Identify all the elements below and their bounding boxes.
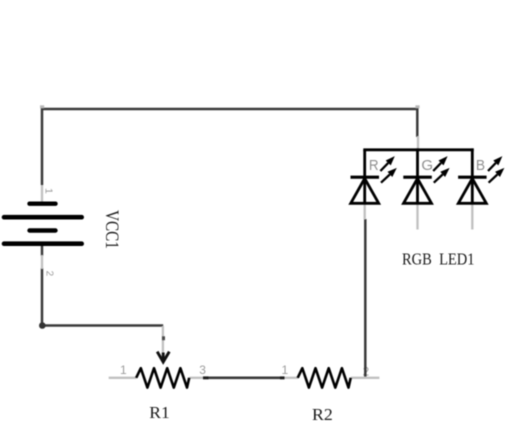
svg-text:G: G (421, 157, 433, 174)
svg-text:1: 1 (282, 363, 289, 377)
svg-text:R2: R2 (312, 405, 333, 424)
svg-text:B: B (476, 157, 485, 174)
svg-text:R: R (369, 157, 379, 174)
svg-text:VCC1: VCC1 (101, 210, 122, 249)
svg-text:1: 1 (42, 188, 54, 194)
svg-text:RGB LED1: RGB LED1 (402, 250, 475, 269)
svg-text:3: 3 (199, 363, 206, 377)
svg-text:R1: R1 (149, 403, 170, 422)
svg-text:1: 1 (120, 363, 127, 377)
svg-text:2: 2 (43, 271, 54, 277)
